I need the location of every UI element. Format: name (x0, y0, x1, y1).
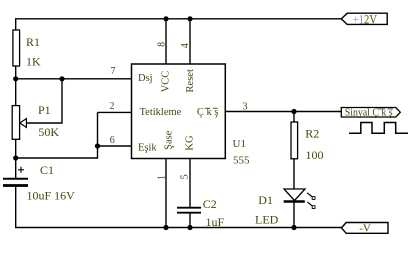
junction pin 4 top rail (187, 16, 192, 21)
svg-text:1uF: 1uF (206, 215, 225, 229)
wire pin 7 (16, 78, 132, 80)
svg-text:1K: 1K (26, 54, 41, 68)
wire P1 top stub (15, 79, 17, 106)
wire pin 2 (98, 111, 132, 113)
wire pin 6 (98, 145, 132, 147)
junction C2 / rail (187, 225, 192, 230)
junction LED / rail (291, 225, 296, 230)
svg-text:Sinyal Ç k ş: Sinyal Ç k ş (345, 107, 393, 118)
label Cikis (output) (197, 107, 219, 118)
capacitor C2 (177, 208, 201, 213)
wire C1 to bottom rail (15, 187, 17, 228)
LED emission arrows (307, 193, 315, 209)
wire pin 4 (189, 19, 191, 64)
IC U1 555 (132, 64, 226, 159)
resistor R2 (291, 122, 298, 159)
svg-text:KG: KG (185, 135, 196, 151)
wire R1 top stub (15, 19, 17, 30)
wire C2 to rail (189, 213, 191, 228)
svg-text:10uF 16V: 10uF 16V (27, 188, 76, 202)
wire top rail (15, 18, 341, 20)
wire pin 8 (165, 19, 167, 64)
svg-text:5: 5 (179, 174, 190, 179)
svg-text:100: 100 (306, 148, 324, 162)
svg-text:P1: P1 (38, 103, 51, 117)
svg-text:U1: U1 (233, 138, 246, 150)
wire node to pins 2 and 6 (16, 112, 98, 158)
wire LED to rail (293, 202, 295, 228)
svg-text:6: 6 (110, 135, 115, 146)
junction pin 1 / rail (163, 225, 168, 230)
svg-text:Reset: Reset (185, 69, 196, 92)
svg-text:VCC: VCC (161, 71, 172, 93)
svg-text:2: 2 (110, 101, 115, 112)
wire pin 5 (189, 159, 191, 208)
junction wiper / pin7 wire (59, 76, 64, 81)
wire bottom rail (15, 227, 341, 229)
svg-text:555: 555 (233, 155, 250, 167)
svg-text:-V: -V (359, 222, 371, 234)
power tag +12V (341, 12, 387, 26)
svg-text:D1: D1 (258, 193, 273, 207)
wire P1 bottom stub (15, 139, 17, 158)
svg-text:1: 1 (157, 175, 168, 180)
svg-text:50K: 50K (38, 125, 59, 139)
waveform symbol square wave (349, 123, 408, 134)
svg-text:C1: C1 (40, 163, 54, 177)
wire P1 wiper to pin7 node (26, 79, 62, 123)
wire R1 bottom (15, 66, 17, 79)
svg-text:8: 8 (157, 42, 168, 47)
wire R2 top stub (293, 112, 295, 123)
svg-text:R1: R1 (26, 35, 40, 49)
svg-text:4: 4 (180, 43, 191, 48)
svg-text:Eşik: Eşik (138, 143, 157, 154)
capacitor C1 (3, 158, 28, 186)
junction R1 / P1 / pin7 (13, 76, 18, 81)
svg-text:3: 3 (243, 102, 248, 113)
svg-text:R2: R2 (305, 127, 319, 141)
svg-text:Şase: Şase (163, 130, 174, 150)
wire R2 to LED (293, 159, 295, 189)
LED D1 (284, 189, 305, 202)
svg-text:Tetikleme: Tetikleme (140, 107, 182, 118)
output tag Sinyal Cikis (341, 107, 400, 118)
svg-text:LED: LED (255, 213, 279, 227)
svg-text:7: 7 (111, 66, 116, 77)
potentiometer P1 (12, 106, 26, 140)
wire pin 1 (165, 159, 167, 228)
svg-text:Dsj: Dsj (138, 73, 153, 84)
junction P1 / C1 / trigger node (13, 155, 18, 160)
junction pin3 / R2 (291, 109, 296, 114)
junction pin 6 (95, 143, 100, 148)
power tag -V (341, 222, 388, 234)
svg-text:C2: C2 (203, 197, 217, 211)
junction pin 8 top rail (163, 16, 168, 21)
wire pin 3 (225, 111, 341, 113)
svg-text:+12V: +12V (353, 12, 377, 26)
resistor R1 (13, 30, 20, 66)
